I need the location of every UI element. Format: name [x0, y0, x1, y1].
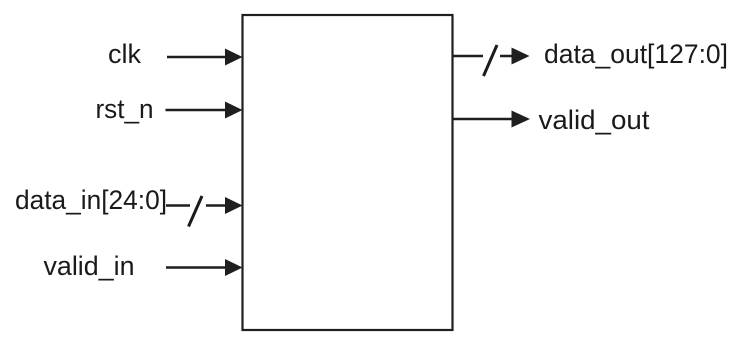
wire data_out segment 1: [452, 55, 483, 58]
svg-text:data_in[24:0]: data_in[24:0]: [15, 185, 167, 215]
wire valid_in: [166, 266, 227, 269]
wire clk: [167, 56, 227, 59]
wire valid_out: [452, 118, 513, 121]
arrowhead clk: [225, 49, 243, 66]
svg-text:valid_in: valid_in: [44, 251, 135, 281]
svg-text:clk: clk: [108, 39, 141, 69]
bus slash data_out: [484, 45, 498, 76]
wire rst_n: [166, 109, 228, 112]
wire data_in segment 2: [206, 204, 227, 207]
bus slash data_in: [189, 196, 203, 227]
wire data_in segment 1: [166, 204, 190, 207]
arrowhead data_out: [512, 48, 530, 65]
svg-text:data_out[127:0]: data_out[127:0]: [544, 39, 728, 69]
module block rectangle: [243, 15, 453, 330]
arrowhead valid_in: [225, 259, 243, 276]
svg-text:rst_n: rst_n: [96, 94, 154, 124]
arrowhead rst_n: [225, 102, 243, 119]
arrowhead valid_out: [512, 111, 531, 128]
arrowhead data_in: [225, 197, 243, 214]
wire data_out segment 2: [500, 55, 513, 58]
svg-text:valid_out: valid_out: [539, 105, 650, 135]
